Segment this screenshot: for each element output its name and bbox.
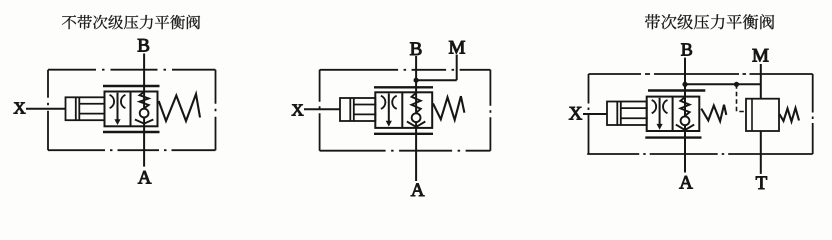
throttle + flow arrow (right valve left square)	[652, 100, 656, 113]
title: 不带次级压力平衡阀	[62, 15, 200, 29]
pilot actuator piston (right)	[607, 102, 647, 126]
svg-text:X: X	[13, 99, 25, 118]
throttle + flow arrow (middle left square)	[381, 96, 385, 109]
valve top channel line (middle)	[374, 86, 433, 88]
wire M-B horizontal (right)	[685, 83, 761, 85]
wire B-A vertical line	[143, 54, 145, 167]
valve bottom channel line	[103, 131, 160, 133]
check valve w/ spring (right square)	[140, 92, 149, 108]
enclosure (middle)	[320, 69, 491, 71]
svg-text:A: A	[679, 172, 693, 193]
svg-text:X: X	[291, 101, 303, 120]
valve body squares	[105, 92, 158, 127]
wire M vertical upper (right)	[760, 64, 762, 99]
valve top channel line	[103, 85, 160, 87]
valve bottom channel line (middle)	[374, 133, 433, 135]
svg-text:X: X	[569, 104, 583, 125]
junction dot on pilot branch (right)	[734, 82, 739, 87]
main spring	[159, 94, 200, 121]
wire X port line	[26, 108, 66, 110]
pilot line (dashed) to secondary valve	[737, 84, 747, 111]
valve bottom channel line (right)	[645, 136, 701, 138]
svg-text:A: A	[138, 167, 152, 188]
wire M-B horizontal (middle)	[416, 79, 457, 81]
secondary valve piston line	[751, 99, 753, 131]
svg-text:T: T	[756, 173, 768, 194]
wire X port line (right)	[583, 113, 607, 115]
title: 带次级压力平衡阀	[645, 14, 774, 29]
valve body squares (right)	[647, 97, 700, 131]
svg-text:B: B	[681, 39, 693, 59]
svg-text:M: M	[752, 46, 769, 67]
svg-text:B: B	[137, 36, 150, 57]
check valve w/ spring (right valve right square)	[680, 97, 689, 116]
wire T line (secondary valve to T)	[760, 131, 762, 174]
valve top channel line (right)	[648, 89, 705, 91]
wire B-A vertical (middle)	[415, 56, 417, 181]
enclosure (right)	[589, 73, 813, 75]
check valve w/ spring (middle right square)	[412, 93, 421, 113]
main spring (middle)	[433, 96, 464, 120]
enclosure (dash-dot boundary)	[48, 69, 216, 71]
wire M vertical (middle)	[456, 55, 458, 81]
pilot actuator piston (middle)	[340, 98, 375, 121]
main spring (right)	[701, 105, 726, 122]
throttle + flow arrow (left square)	[110, 95, 114, 108]
pilot actuator piston	[66, 97, 105, 120]
junction dot (middle)	[414, 78, 419, 83]
secondary balance valve body	[746, 99, 779, 131]
wire X port line (middle)	[304, 108, 340, 110]
junction dot on B line (right)	[682, 82, 687, 87]
valve body squares (middle)	[375, 92, 432, 128]
wire B-A vertical (right)	[684, 58, 686, 173]
secondary valve spring	[779, 108, 799, 122]
svg-text:A: A	[411, 180, 425, 201]
